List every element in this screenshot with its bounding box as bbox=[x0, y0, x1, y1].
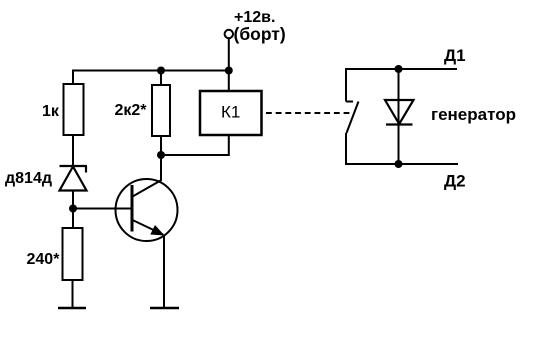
dashed link K1 to contact bbox=[266, 112, 352, 114]
wire emitter down to ground bbox=[163, 235, 165, 309]
svg-text:2к2*: 2к2* bbox=[115, 102, 148, 119]
resistor R3 240* bbox=[63, 228, 83, 280]
wire generator bottom rail Д2 bbox=[346, 163, 458, 165]
resistor R1 1к bbox=[64, 84, 84, 135]
transistor Q1 bbox=[116, 179, 178, 241]
svg-text:К1: К1 bbox=[221, 103, 240, 122]
svg-text:(борт): (борт) bbox=[234, 24, 286, 44]
resistor R2 2к2* bbox=[152, 85, 170, 136]
node base junction bbox=[69, 205, 77, 213]
diode VD2 generator bbox=[385, 100, 414, 125]
contact blade bbox=[347, 102, 359, 134]
wire top rail bbox=[72, 70, 229, 72]
contact fixed tick bbox=[346, 101, 353, 103]
wire R3 to ground bbox=[72, 280, 74, 308]
wire zener to R3 bbox=[72, 191, 74, 229]
wire top rail down to R2 bbox=[160, 71, 162, 86]
svg-text:1к: 1к bbox=[42, 103, 60, 120]
wire contact upper lead bbox=[345, 68, 347, 102]
svg-text:Д1: Д1 bbox=[444, 46, 466, 65]
wire +12V terminal down to relay K1 bbox=[228, 39, 230, 92]
svg-text:д814д: д814д bbox=[5, 170, 52, 187]
node junction top rail / R2 bbox=[157, 67, 165, 75]
wire collector node to K1 bottom bbox=[161, 135, 229, 155]
wire R1 to zener bbox=[72, 135, 74, 167]
emitter arrow head bbox=[150, 225, 164, 236]
wire R2 to collector node bbox=[160, 136, 162, 155]
node collector junction bbox=[157, 151, 165, 159]
ground right bbox=[150, 307, 179, 310]
wire top rail down to R1 bbox=[72, 70, 74, 85]
node diode bottom bbox=[395, 160, 403, 168]
zener diode VD1 д814д bbox=[60, 166, 88, 191]
wire contact lower lead bbox=[345, 133, 347, 165]
wire collector up to node bbox=[160, 155, 162, 181]
wire generator top rail Д1 bbox=[346, 68, 457, 70]
terminal +12V (open circle) bbox=[225, 30, 233, 38]
relay K1 coil box bbox=[200, 91, 262, 135]
svg-text:генератор: генератор bbox=[431, 105, 516, 124]
wire base lead bbox=[73, 208, 132, 210]
node junction top rail / K1 feed bbox=[225, 67, 233, 75]
wire diode vertical bbox=[398, 69, 400, 164]
node diode top bbox=[395, 65, 403, 73]
svg-text:240*: 240* bbox=[27, 251, 61, 268]
ground left bbox=[58, 307, 86, 310]
svg-text:Д2: Д2 bbox=[444, 172, 466, 191]
